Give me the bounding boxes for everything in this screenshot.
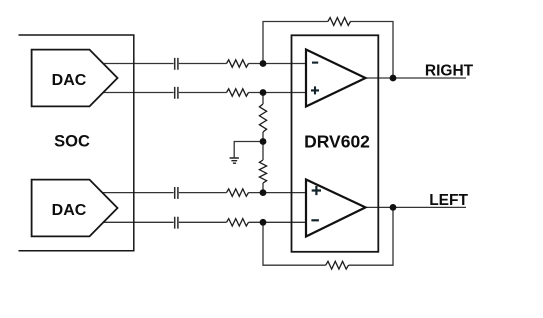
ground xyxy=(230,158,239,163)
node junction line1 tap xyxy=(260,60,267,67)
resistor feedback top xyxy=(328,18,351,26)
wire top feedback loop right channel xyxy=(263,22,393,79)
capacitor C4 xyxy=(175,217,178,229)
wire line1 right minus input xyxy=(100,63,306,65)
wire line2 right plus input xyxy=(100,92,306,94)
capacitor C2 xyxy=(175,87,178,99)
resistor series line1 xyxy=(227,60,249,67)
wire right output xyxy=(366,77,467,79)
wire bottom feedback loop left channel xyxy=(263,207,393,265)
node junction line4 tap xyxy=(260,219,267,226)
svg-text:SOC: SOC xyxy=(54,133,90,151)
op-amp A1 right channel xyxy=(306,50,366,107)
resistor series line3 xyxy=(227,189,249,196)
SOC box xyxy=(19,35,134,251)
wire center divider column xyxy=(262,93,264,193)
svg-text:LEFT: LEFT xyxy=(429,192,468,209)
node junction left output xyxy=(390,204,397,211)
node junction right output xyxy=(390,75,397,82)
DAC block 1 xyxy=(32,50,118,107)
wire line3 left plus input xyxy=(100,192,306,194)
svg-text:DAC: DAC xyxy=(52,202,87,219)
DAC block 2 xyxy=(32,180,118,237)
node junction line3 tap xyxy=(260,189,267,196)
wire left output xyxy=(366,206,467,208)
resistor feedback bottom xyxy=(326,261,349,269)
svg-text:DRV602: DRV602 xyxy=(304,132,370,152)
wire line4 left minus input xyxy=(100,221,306,223)
resistor divider lower xyxy=(259,160,266,183)
svg-text:DAC: DAC xyxy=(52,72,87,89)
node junction divider mid xyxy=(260,138,267,145)
capacitor C3 xyxy=(175,187,178,199)
op-amp A2 left channel xyxy=(306,180,366,237)
wire ground stub xyxy=(234,142,263,158)
node junction line2 tap xyxy=(260,89,267,96)
resistor series line4 xyxy=(227,219,249,226)
resistor series line2 xyxy=(227,89,249,96)
svg-text:RIGHT: RIGHT xyxy=(425,63,474,80)
capacitor C1 xyxy=(175,58,178,70)
DRV602 box U1 xyxy=(292,35,379,252)
resistor divider upper xyxy=(259,104,266,132)
